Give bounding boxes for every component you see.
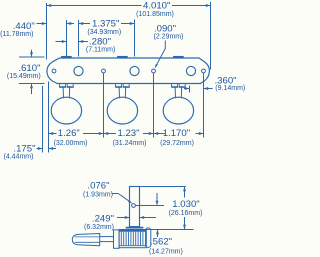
svg-text:(7.11mm): (7.11mm)	[86, 46, 115, 53]
svg-text:(4.44mm): (4.44mm)	[4, 153, 34, 160]
svg-text:(34.93mm): (34.93mm)	[87, 29, 121, 36]
svg-text:(32.00mm): (32.00mm)	[54, 140, 88, 147]
svg-text:1.170": 1.170"	[163, 128, 190, 139]
svg-text:(26.16mm): (26.16mm)	[169, 210, 203, 217]
svg-text:(29.72mm): (29.72mm)	[160, 140, 194, 147]
svg-text:(2.29mm): (2.29mm)	[154, 33, 184, 40]
svg-text:(15.49mm): (15.49mm)	[7, 73, 41, 80]
svg-text:(11.78mm): (11.78mm)	[0, 31, 33, 38]
svg-text:(9.14mm): (9.14mm)	[215, 85, 245, 92]
svg-text:.076": .076"	[87, 181, 109, 192]
svg-text:(101.85mm): (101.85mm)	[136, 11, 174, 18]
svg-text:(6.32mm): (6.32mm)	[84, 224, 114, 231]
svg-text:.249": .249"	[92, 214, 114, 225]
svg-text:1.030": 1.030"	[172, 199, 199, 210]
svg-text:1.375": 1.375"	[92, 18, 119, 29]
svg-text:(14.27mm): (14.27mm)	[149, 248, 183, 255]
svg-text:1.23": 1.23"	[117, 128, 139, 139]
svg-text:.562": .562"	[150, 237, 172, 248]
svg-text:(1.93mm): (1.93mm)	[83, 191, 113, 198]
svg-text:(31.24mm): (31.24mm)	[113, 140, 147, 147]
svg-text:1.26": 1.26"	[58, 128, 80, 139]
